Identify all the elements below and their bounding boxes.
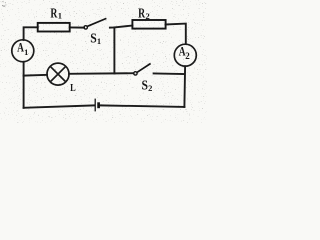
resistor R1 xyxy=(38,23,70,32)
svg-text:1: 1 xyxy=(24,47,28,57)
wire S2 to right vertical xyxy=(154,72,185,75)
wire lamp to S2 xyxy=(69,72,134,75)
svg-text:A: A xyxy=(17,40,24,54)
svg-text:R: R xyxy=(50,5,57,20)
ammeter A1 xyxy=(12,40,34,62)
wire middle branch vertical xyxy=(113,27,115,73)
wire middle row left to lamp xyxy=(24,74,47,77)
svg-text:2: 2 xyxy=(148,83,152,93)
ammeter A2 xyxy=(174,44,196,66)
switch S2 xyxy=(134,64,151,76)
resistor R2 xyxy=(132,20,165,29)
battery short plate xyxy=(97,102,100,108)
wire bottom left segment xyxy=(24,105,95,107)
wire bottom right segment xyxy=(100,105,184,107)
wire left vertical A1 to bottom-left corner xyxy=(23,62,25,108)
svg-text:S: S xyxy=(142,78,149,93)
svg-text:S: S xyxy=(90,30,97,45)
svg-text:2: 2 xyxy=(185,51,190,61)
battery long plate xyxy=(94,99,96,112)
svg-text:1: 1 xyxy=(97,36,101,46)
svg-text:L: L xyxy=(70,82,76,94)
svg-text:1: 1 xyxy=(58,11,62,21)
wire S1 to R2 with node junction xyxy=(110,26,132,28)
wire R1 to S1 xyxy=(70,26,84,28)
svg-text:R: R xyxy=(138,6,145,21)
switch S1 xyxy=(84,18,106,29)
lamp L xyxy=(47,63,69,85)
wire A2 bottom to bottom-right corner xyxy=(183,66,186,107)
wire R2 to top-right corner down to A2 xyxy=(166,24,186,44)
svg-text:2: 2 xyxy=(146,11,150,21)
wire top-left corner to A1 and R1 xyxy=(24,27,38,40)
scan smudge top-left xyxy=(2,2,6,7)
